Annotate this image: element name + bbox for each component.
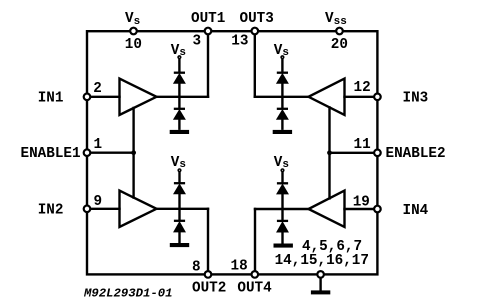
op-amp U2 (driver 2): [120, 191, 157, 227]
pin 18 terminal (OUT4): [252, 271, 259, 278]
pin 3 terminal (OUT1): [205, 28, 212, 35]
svg-text:OUT4: OUT4: [237, 281, 272, 297]
wire IN2 to U2 input: [87, 208, 120, 210]
pin 9 terminal (IN2): [84, 206, 91, 213]
svg-text:Vs: Vs: [125, 11, 140, 28]
svg-text:10: 10: [125, 37, 142, 53]
svg-text:ENABLE1: ENABLE1: [21, 146, 81, 162]
svg-text:8: 8: [192, 259, 201, 275]
pin 13 terminal (OUT3): [252, 28, 259, 35]
svg-text:OUT3: OUT3: [240, 11, 274, 27]
svg-text:IN3: IN3: [403, 91, 429, 107]
clamp diode chain 1 (Vs node): [170, 56, 189, 134]
op-amp U3 (driver 3): [309, 79, 345, 115]
clamp diode chain 4 (Vs node): [274, 169, 293, 248]
svg-text:IN1: IN1: [38, 91, 64, 107]
IC body outline: [87, 31, 377, 274]
clamp diode chain 2 (Vs node): [170, 169, 189, 247]
pin 1 terminal (ENABLE1): [84, 149, 91, 156]
ground symbol bottom: [311, 277, 330, 294]
svg-text:IN2: IN2: [38, 203, 64, 219]
svg-text:OUT1: OUT1: [191, 11, 225, 27]
wire IN1 to U1 input: [87, 96, 120, 98]
svg-text:18: 18: [231, 259, 248, 275]
wire OUT1 vertical to pin 3: [207, 31, 209, 97]
pin 2 terminal (IN1): [84, 94, 91, 101]
wire ENABLE1 vertical U1 to U2: [132, 108, 134, 198]
svg-text:2: 2: [93, 81, 102, 97]
svg-text:Vs: Vs: [171, 155, 186, 171]
wire OUT4 vertical to pin 18: [254, 209, 256, 274]
svg-text:ENABLE2: ENABLE2: [386, 146, 446, 162]
svg-text:11: 11: [354, 137, 371, 153]
svg-text:3: 3: [193, 34, 202, 50]
pin 20 terminal (Vss): [336, 28, 343, 35]
wire ENABLE2 vertical U3 to U4: [328, 107, 330, 198]
pin 11 terminal (ENABLE2): [374, 150, 381, 157]
wire IN3 to U3 input: [345, 96, 378, 98]
wire U2 output to OUT2 node: [157, 208, 209, 210]
wire OUT3 node to U3 output: [255, 96, 309, 98]
pin 10 terminal (Vs): [130, 28, 137, 35]
svg-text:IN4: IN4: [403, 203, 429, 219]
svg-text:OUT2: OUT2: [192, 281, 226, 297]
wire U1 output to OUT1 node: [157, 96, 209, 98]
svg-text:Vss: Vss: [325, 11, 347, 28]
wire OUT3 vertical from pin 13: [254, 31, 256, 97]
svg-text:13: 13: [231, 34, 248, 50]
svg-text:12: 12: [354, 80, 371, 96]
clamp diode chain 3 (Vs node): [273, 56, 292, 134]
svg-text:9: 9: [94, 194, 103, 210]
junction dot ENABLE1: [131, 150, 136, 155]
svg-text:14,15,16,17: 14,15,16,17: [275, 253, 369, 269]
svg-text:20: 20: [331, 37, 348, 53]
op-amp U4 (driver 4): [309, 191, 345, 227]
svg-text:Vs: Vs: [274, 43, 289, 59]
svg-text:M92L293D1-01: M92L293D1-01: [83, 287, 173, 301]
wire U4 output to OUT4 node: [255, 208, 309, 210]
wire ENABLE1 horizontal: [87, 151, 134, 153]
pin 8 terminal (OUT2): [205, 271, 212, 278]
ground pin terminal: [317, 271, 324, 278]
svg-text:Vs: Vs: [274, 155, 289, 171]
pin 12 terminal (IN3): [374, 94, 381, 101]
op-amp U1 (driver 1): [120, 79, 157, 115]
junction dot ENABLE2: [327, 150, 332, 155]
wire OUT2 vertical to pin 8: [207, 209, 209, 275]
pin 19 terminal (IN4): [374, 206, 381, 213]
svg-text:1: 1: [94, 137, 103, 153]
wire ENABLE2 horizontal: [330, 152, 378, 154]
svg-text:19: 19: [353, 195, 370, 211]
wire IN4 to U4 input: [345, 208, 378, 210]
svg-text:Vs: Vs: [171, 43, 186, 59]
